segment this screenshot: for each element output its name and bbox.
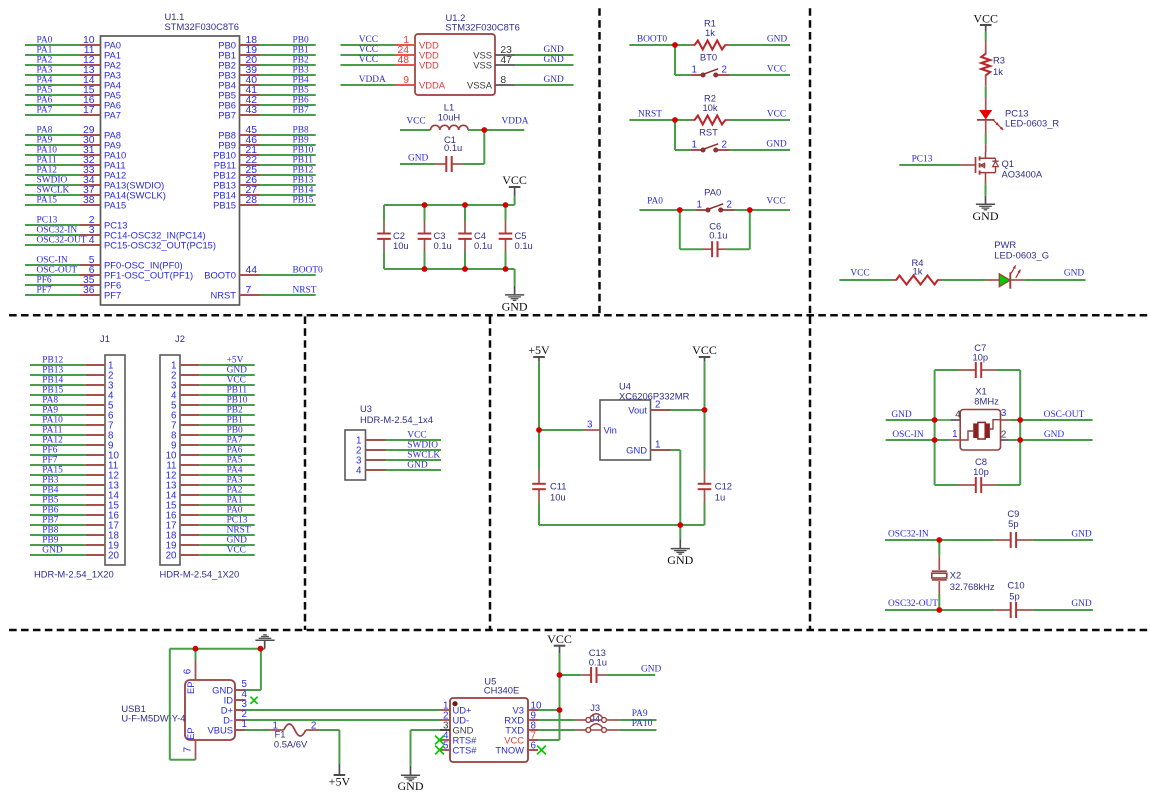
svg-text:PF7: PF7 [37,285,52,295]
svg-text:10p: 10p [972,351,988,362]
svg-text:PB15: PB15 [42,385,63,395]
svg-text:2: 2 [722,140,727,151]
svg-text:R3: R3 [993,55,1005,66]
svg-text:PB13: PB13 [42,365,63,375]
svg-text:PB7: PB7 [218,109,236,120]
svg-text:PF7: PF7 [104,289,121,300]
svg-text:PA8: PA8 [37,125,53,135]
svg-text:OSC32-OUT: OSC32-OUT [888,599,938,609]
svg-text:PB14: PB14 [293,185,314,195]
svg-text:Vin: Vin [604,424,617,435]
svg-text:VDD: VDD [419,59,439,70]
svg-text:SWCLK: SWCLK [37,185,70,195]
svg-text:OSC-IN: OSC-IN [37,255,68,265]
svg-text:+5V: +5V [329,774,351,788]
svg-text:28: 28 [246,195,258,206]
svg-text:0.1u: 0.1u [444,142,462,153]
svg-text:J4: J4 [590,713,600,724]
svg-text:3: 3 [587,419,593,430]
svg-text:VCC: VCC [359,55,378,65]
svg-text:GND: GND [1064,269,1085,279]
svg-text:PF7: PF7 [42,455,57,465]
svg-text:10u: 10u [550,491,566,502]
svg-text:PA15: PA15 [104,199,126,210]
svg-text:VCC: VCC [227,545,246,555]
svg-text:8: 8 [500,75,506,86]
svg-text:PA5: PA5 [37,85,53,95]
svg-text:1k: 1k [913,266,923,277]
svg-text:5p: 5p [1008,518,1018,529]
svg-text:1: 1 [655,439,660,450]
svg-text:GND: GND [641,665,662,675]
svg-text:PA0: PA0 [37,35,53,45]
svg-text:9: 9 [403,75,409,86]
svg-text:VCC: VCC [692,343,717,357]
svg-text:C12: C12 [715,481,732,492]
svg-text:2: 2 [727,200,732,211]
svg-text:PA7: PA7 [227,435,243,445]
svg-text:SWCLK: SWCLK [407,450,440,460]
svg-text:7: 7 [183,747,194,752]
svg-text:PF6: PF6 [37,275,52,285]
svg-text:10uH: 10uH [438,111,460,122]
svg-text:44: 44 [246,265,258,276]
svg-text:X2: X2 [950,570,961,581]
svg-text:EP: EP [185,681,196,694]
svg-text:0.1u: 0.1u [515,240,533,251]
svg-text:PC13: PC13 [912,155,933,165]
svg-text:GND: GND [227,535,248,545]
svg-text:PA8: PA8 [42,395,58,405]
svg-text:Vout: Vout [628,404,647,415]
svg-text:PB2: PB2 [293,55,309,65]
svg-text:HDR-M-2.54_1X20: HDR-M-2.54_1X20 [34,569,114,580]
svg-text:PB2: PB2 [227,405,243,415]
svg-text:PB11: PB11 [293,155,314,165]
svg-text:EP: EP [185,727,196,740]
svg-text:PB12: PB12 [293,165,314,175]
svg-text:PB8: PB8 [42,525,58,535]
svg-text:0.1u: 0.1u [589,656,607,667]
svg-text:47: 47 [500,55,512,66]
svg-text:VCC: VCC [359,45,378,55]
svg-text:10u: 10u [393,240,409,251]
svg-text:1k: 1k [705,27,715,38]
svg-text:OSC32-IN: OSC32-IN [37,225,78,235]
svg-text:8MHz: 8MHz [974,396,999,407]
svg-text:VCC: VCC [766,197,785,207]
svg-text:LED-0603_R: LED-0603_R [1005,118,1059,129]
svg-text:VCC: VCC [406,117,425,127]
svg-text:2: 2 [722,65,727,76]
svg-text:32.768kHz: 32.768kHz [950,581,995,592]
svg-text:PB1: PB1 [293,45,309,55]
svg-text:CH340E: CH340E [484,685,519,696]
svg-text:PA7: PA7 [37,105,53,115]
svg-text:1: 1 [692,140,697,151]
svg-text:HDR-M-2.54_1X20: HDR-M-2.54_1X20 [160,569,240,580]
svg-text:GND: GND [398,779,424,793]
svg-text:0.5A/6V: 0.5A/6V [274,739,308,750]
svg-text:PA0: PA0 [227,505,243,515]
svg-text:PA10: PA10 [42,415,63,425]
svg-text:GND: GND [227,365,248,375]
svg-text:NRST: NRST [293,285,317,295]
svg-text:PA9: PA9 [37,135,53,145]
svg-text:VCC: VCC [850,269,869,279]
svg-text:PC15-OSC32_OUT(PC15): PC15-OSC32_OUT(PC15) [104,239,216,250]
svg-text:GND: GND [626,444,647,455]
svg-text:4: 4 [955,410,961,421]
svg-text:GND: GND [1071,530,1092,540]
svg-text:STM32F030C8T6: STM32F030C8T6 [165,21,240,32]
svg-text:PA9: PA9 [42,405,58,415]
svg-text:PB3: PB3 [293,65,309,75]
svg-text:43: 43 [246,105,258,116]
svg-text:PA15: PA15 [42,465,63,475]
svg-text:NRST: NRST [210,289,236,300]
svg-text:PWR: PWR [994,239,1016,250]
svg-text:BT0: BT0 [700,52,717,63]
svg-text:PB6: PB6 [293,95,309,105]
svg-text:GND: GND [502,300,528,314]
svg-text:PB14: PB14 [42,375,63,385]
svg-text:PB4: PB4 [293,75,309,85]
svg-text:0.1u: 0.1u [474,240,492,251]
svg-text:PC13: PC13 [227,515,248,525]
svg-text:7: 7 [246,285,252,296]
svg-text:PB0: PB0 [227,425,243,435]
svg-text:10p: 10p [973,466,989,477]
svg-text:GND: GND [667,553,693,567]
svg-text:PC13: PC13 [37,215,58,225]
svg-text:2: 2 [1001,430,1006,441]
svg-text:J2: J2 [175,333,185,344]
svg-text:PB4: PB4 [42,485,58,495]
svg-text:GND: GND [42,545,63,555]
svg-text:C11: C11 [550,481,567,492]
svg-text:PB11: PB11 [227,385,248,395]
svg-text:PB6: PB6 [42,505,58,515]
svg-text:10k: 10k [702,102,717,113]
svg-text:J1: J1 [100,333,110,344]
svg-text:OSC-OUT: OSC-OUT [37,265,78,275]
svg-text:1: 1 [692,65,697,76]
svg-text:38: 38 [83,195,95,206]
svg-text:PA4: PA4 [37,75,53,85]
svg-text:VDDA: VDDA [359,75,386,85]
svg-text:PF6: PF6 [42,445,57,455]
svg-text:VSSA: VSSA [467,79,493,90]
svg-text:TNOW: TNOW [495,744,524,755]
svg-text:PB7: PB7 [293,105,309,115]
svg-text:PA9: PA9 [632,709,648,719]
svg-text:+5V: +5V [528,343,550,357]
svg-text:PA1: PA1 [227,495,243,505]
svg-text:PA3: PA3 [37,65,53,75]
svg-text:J3: J3 [590,702,600,713]
svg-text:PB5: PB5 [293,85,309,95]
svg-text:PB9: PB9 [293,135,309,145]
svg-text:1: 1 [697,200,702,211]
svg-text:PA4: PA4 [227,465,243,475]
svg-text:GND: GND [973,209,999,223]
svg-text:PA2: PA2 [227,485,243,495]
svg-text:1: 1 [952,429,957,440]
svg-text:BOOT0: BOOT0 [293,265,324,275]
svg-text:OSC32-IN: OSC32-IN [888,530,929,540]
svg-text:NRST: NRST [638,110,662,120]
svg-text:PB10: PB10 [293,145,314,155]
svg-text:PA10: PA10 [37,145,58,155]
svg-text:PA0: PA0 [704,186,721,197]
svg-text:AO3400A: AO3400A [1002,168,1043,179]
svg-text:PB5: PB5 [42,495,58,505]
svg-text:GND: GND [767,35,788,45]
svg-text:SWDIO: SWDIO [407,440,438,450]
svg-text:PA11: PA11 [42,425,62,435]
svg-text:17: 17 [83,105,95,116]
svg-text:2: 2 [311,720,316,731]
svg-text:LED-0603_G: LED-0603_G [994,250,1049,261]
svg-text:PA10: PA10 [632,719,653,729]
svg-text:GND: GND [408,154,429,164]
svg-text:VBUS: VBUS [207,724,233,735]
svg-text:VCC: VCC [359,35,378,45]
svg-text:VCC: VCC [767,110,786,120]
svg-text:U-F-M5DW-Y-4: U-F-M5DW-Y-4 [121,713,185,724]
svg-text:PB12: PB12 [42,355,63,365]
svg-text:RST: RST [699,127,718,138]
svg-text:BOOT0: BOOT0 [637,35,668,45]
svg-text:3: 3 [1001,408,1007,419]
svg-text:STM32F030C8T6: STM32F030C8T6 [445,22,520,33]
svg-text:PB15: PB15 [213,199,236,210]
svg-text:VCC: VCC [502,173,527,187]
svg-text:PA1: PA1 [37,45,53,55]
svg-text:PB13: PB13 [293,175,314,185]
svg-text:VSS: VSS [473,59,492,70]
svg-text:PA12: PA12 [37,165,58,175]
svg-text:CTS#: CTS# [453,744,478,755]
svg-text:SWDIO: SWDIO [37,175,68,185]
svg-text:PB7: PB7 [42,515,58,525]
svg-text:36: 36 [83,285,95,296]
svg-text:GND: GND [544,75,565,85]
svg-text:48: 48 [397,55,409,66]
svg-text:VDDA: VDDA [419,79,446,90]
svg-text:5p: 5p [1009,591,1019,602]
svg-text:VCC: VCC [227,375,246,385]
svg-text:GND: GND [407,460,428,470]
svg-text:PA7: PA7 [104,109,121,120]
svg-text:PB8: PB8 [293,125,309,135]
svg-text:VCC: VCC [407,430,426,440]
svg-text:GND: GND [766,140,787,150]
svg-text:4: 4 [89,235,95,246]
svg-text:PA6: PA6 [227,445,243,455]
svg-text:6: 6 [183,668,194,674]
svg-text:GND: GND [1044,430,1065,440]
svg-text:PA3: PA3 [227,475,243,485]
svg-text:VDDA: VDDA [501,117,528,127]
svg-text:PB15: PB15 [293,195,314,205]
svg-text:PA0: PA0 [647,197,663,207]
svg-text:2: 2 [655,399,660,410]
svg-text:4: 4 [356,465,362,476]
svg-text:PA6: PA6 [37,95,53,105]
svg-text:1u: 1u [715,491,725,502]
svg-text:PA5: PA5 [227,455,243,465]
svg-text:PB10: PB10 [227,395,248,405]
svg-text:PA11: PA11 [37,155,57,165]
svg-text:20: 20 [108,550,119,561]
svg-text:PB3: PB3 [42,475,58,485]
svg-text:BOOT0: BOOT0 [204,269,236,280]
svg-text:NRST: NRST [227,525,251,535]
svg-text:6: 6 [531,741,537,752]
svg-text:GND: GND [891,410,912,420]
svg-text:VCC: VCC [767,65,786,75]
svg-text:0.1u: 0.1u [709,230,727,241]
svg-text:PA12: PA12 [42,435,63,445]
svg-text:GND: GND [1071,599,1092,609]
svg-text:GND: GND [544,55,565,65]
svg-text:PB9: PB9 [42,535,58,545]
svg-text:OSC32-OUT: OSC32-OUT [37,235,87,245]
svg-text:+5V: +5V [227,355,244,365]
svg-text:PB1: PB1 [227,415,243,425]
svg-text:0.1u: 0.1u [434,240,452,251]
svg-text:GND: GND [544,45,565,55]
svg-text:1k: 1k [993,66,1003,77]
svg-text:PA15: PA15 [37,195,58,205]
svg-text:OSC-IN: OSC-IN [892,430,923,440]
svg-text:OSC-OUT: OSC-OUT [1044,410,1085,420]
svg-text:PA2: PA2 [37,55,53,65]
svg-text:20: 20 [166,550,177,561]
svg-text:VCC: VCC [547,632,572,646]
svg-text:C10: C10 [1007,580,1024,591]
svg-text:HDR-M-2.54_1x4: HDR-M-2.54_1x4 [360,414,433,425]
svg-text:PB0: PB0 [293,35,309,45]
svg-text:VCC: VCC [973,12,998,26]
svg-text:U3: U3 [360,403,372,414]
